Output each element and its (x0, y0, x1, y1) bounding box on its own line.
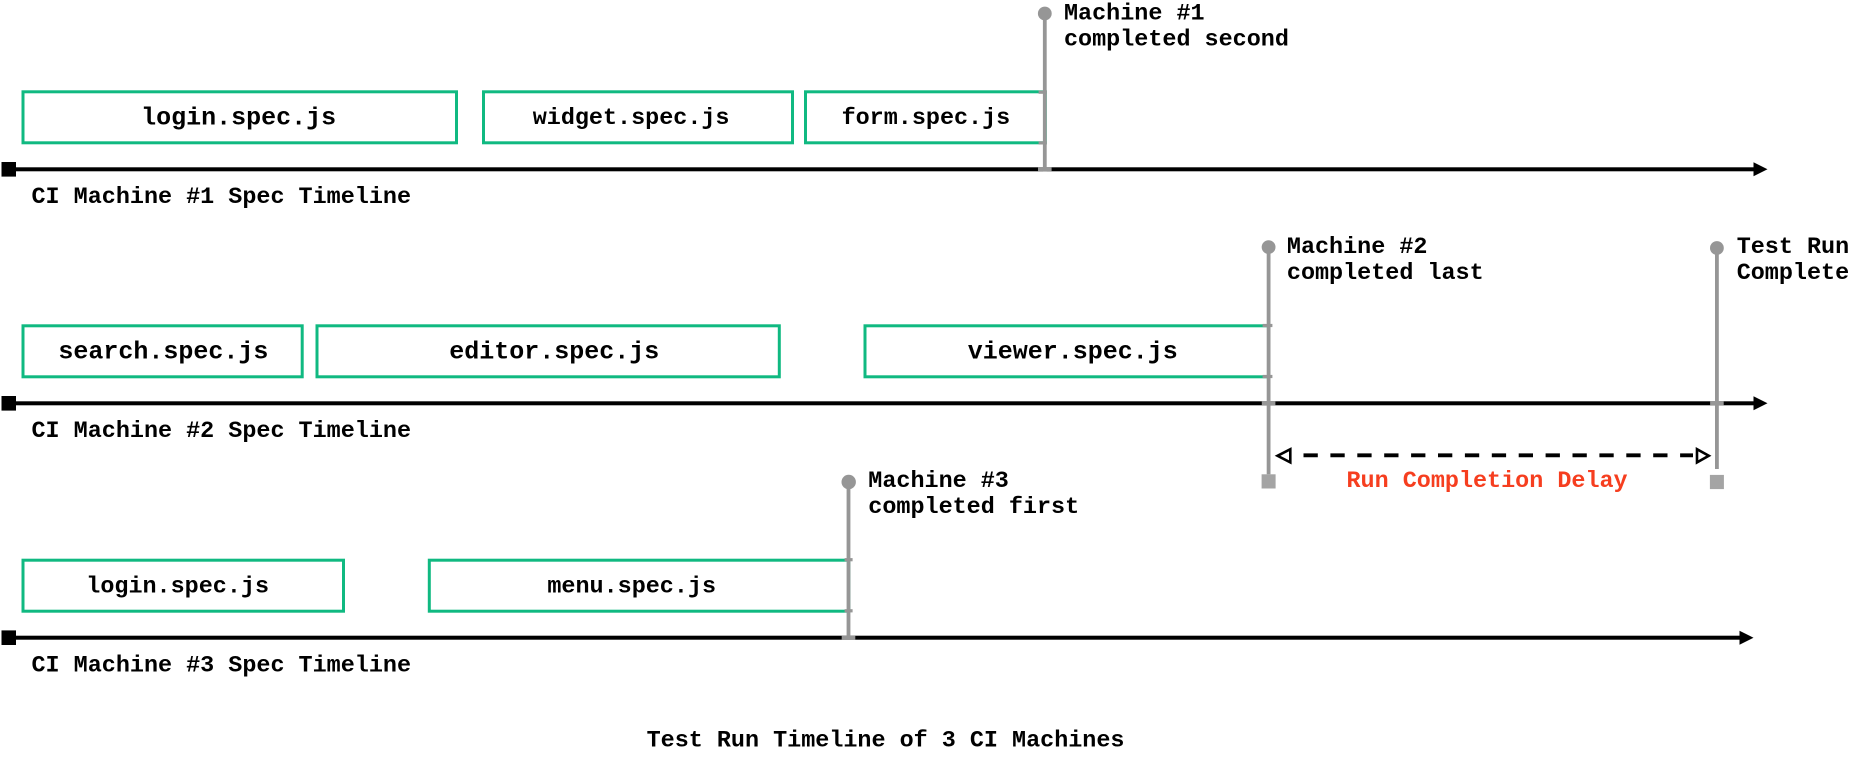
timeline 2 axis (2, 396, 1768, 410)
svg-text:widget.spec.js: widget.spec.js (533, 105, 730, 132)
svg-text:CI Machine #1 Spec Timeline: CI Machine #1 Spec Timeline (32, 184, 412, 211)
timeline 2 origin square (2, 396, 17, 411)
event line machine #1 (1038, 7, 1052, 172)
box login.spec.js (machine 3) (23, 560, 344, 611)
timeline 3 origin square (2, 630, 17, 645)
svg-text:editor.spec.js: editor.spec.js (449, 337, 659, 366)
timeline 3 axis (2, 631, 1754, 645)
box widget.spec.js (machine 1) (484, 92, 793, 143)
box search.spec.js (machine 2) (23, 326, 302, 377)
box viewer.spec.js (machine 2) (865, 326, 1269, 377)
svg-text:form.spec.js: form.spec.js (842, 105, 1011, 132)
box login.spec.js (machine 1) (23, 92, 457, 143)
svg-text:search.spec.js: search.spec.js (58, 337, 268, 366)
svg-text:login.spec.js: login.spec.js (141, 103, 336, 132)
svg-text:Test Run Timeline of 3 CI Mach: Test Run Timeline of 3 CI Machines (647, 728, 1125, 755)
box editor.spec.js (machine 2) (317, 326, 779, 377)
event line machine #3 (842, 475, 856, 640)
event line test run complete (1710, 241, 1724, 489)
svg-text:viewer.spec.js: viewer.spec.js (968, 337, 1178, 366)
svg-text:Machine #3: Machine #3 (868, 468, 1009, 495)
timeline 1 origin square (2, 162, 17, 177)
svg-text:CI Machine #3 Spec Timeline: CI Machine #3 Spec Timeline (32, 652, 412, 679)
svg-text:completed first: completed first (868, 494, 1079, 521)
box menu.spec.js (machine 3) (429, 560, 849, 611)
svg-text:CI Machine #2 Spec Timeline: CI Machine #2 Spec Timeline (32, 418, 412, 445)
svg-text:Run Completion Delay: Run Completion Delay (1347, 468, 1628, 495)
event line machine #2 (1262, 240, 1276, 488)
svg-text:menu.spec.js: menu.spec.js (547, 573, 716, 600)
svg-text:Test Run: Test Run (1737, 234, 1849, 261)
svg-text:completed second: completed second (1064, 27, 1289, 54)
svg-text:Machine #2: Machine #2 (1287, 234, 1428, 261)
svg-text:Completed: Completed (1737, 260, 1850, 287)
timeline 1 axis (2, 162, 1768, 176)
svg-text:Machine #1: Machine #1 (1064, 1, 1205, 28)
svg-text:login.spec.js: login.spec.js (86, 573, 269, 600)
box form.spec.js (machine 1) (806, 92, 1046, 143)
svg-text:completed last: completed last (1287, 260, 1484, 287)
run completion delay dashed arrow (1278, 449, 1709, 462)
